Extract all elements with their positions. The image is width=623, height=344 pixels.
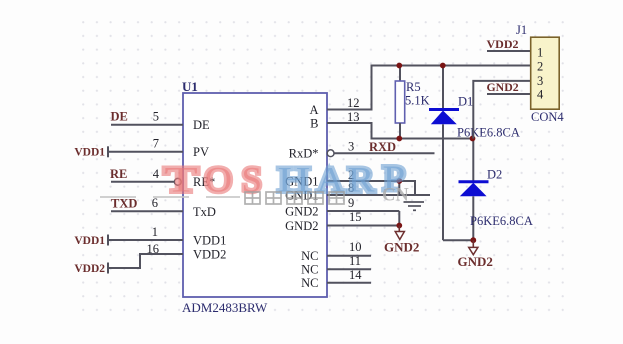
svg-text:VDD1: VDD1 [74,235,105,247]
junction pin 15 GND2 [396,223,402,229]
svg-text:RxD*: RxD* [289,146,319,160]
svg-text:3: 3 [537,74,543,88]
watermark TOSHARP logo [164,159,405,200]
wire pin 15 GND2 [327,210,399,226]
svg-text:11: 11 [349,254,361,268]
svg-text:ADM2483BRW: ADM2483BRW [182,300,268,315]
power port VDD1 (pin 1) [74,235,108,248]
wire pin 7 PV [108,137,183,152]
svg-text:RXD: RXD [369,140,396,154]
svg-text:D1: D1 [458,95,473,109]
svg-text:A: A [316,161,344,201]
wire pin 3 RXD [334,140,434,154]
diode D1 P6KE6.8CA (TVS) [429,66,520,241]
wire pin 6 TxD [111,196,183,211]
svg-text:NC: NC [301,249,318,263]
wire pin 2 GND1 [327,168,415,195]
junction pins 2-8 [396,178,402,184]
wire pin 13 B to lower bus [327,110,473,139]
svg-text:R: R [347,161,375,200]
svg-text:1: 1 [537,46,543,60]
svg-text:5: 5 [153,110,159,124]
junction R5 top on bus rail [396,63,402,69]
wire pin 4 RE* [111,167,174,182]
svg-text:A: A [309,103,318,117]
wire pin 5 DE [111,110,183,125]
wire junction riser pins 2-8 [398,181,400,195]
IC U1 ADM2483BRW body [182,79,327,315]
svg-text:J1: J1 [516,23,527,37]
junction B bus / D2 / J1 pin 3 [470,136,476,142]
power ground symbol GND2 (right) [458,240,493,269]
power ground symbol GND2 (left) [384,226,419,255]
svg-text:NC: NC [301,263,318,277]
junction D1-D2 ground node [470,237,476,243]
svg-text:4: 4 [537,88,544,102]
inverting bubble pin 3 RxD* [327,150,334,157]
svg-text:DE: DE [193,118,210,132]
resistor R5 5.1K [395,66,429,139]
svg-text:GND2: GND2 [487,80,519,94]
wire pin 10 NC [327,240,371,256]
watermark strikethrough and chinese caption [100,186,409,206]
svg-text:D2: D2 [487,168,502,182]
svg-text:3: 3 [348,140,354,154]
wire J1 pin 4 GND2 net [487,93,531,95]
svg-text:GND2: GND2 [384,240,419,255]
svg-text:T: T [164,160,197,200]
svg-text:VDD1: VDD1 [193,234,226,248]
power port VDD2 (pin 16) [74,263,108,276]
svg-text:4: 4 [153,167,160,181]
svg-text:PV: PV [193,145,209,159]
power port VDD1 (pin 7) [74,146,108,158]
svg-text:7: 7 [153,137,159,151]
svg-text:14: 14 [349,268,362,282]
svg-text:GND2: GND2 [285,205,318,219]
svg-text:CN: CN [382,186,409,206]
svg-text:VDD2: VDD2 [193,248,226,262]
svg-text:VDD1: VDD1 [74,147,105,159]
wire J1 pin 1 VDD2 net [487,50,531,52]
svg-text:5.1K: 5.1K [405,94,430,108]
inverting bubble pin 4 [174,178,181,185]
junction D1 top on bus rail [440,63,446,69]
svg-text:2: 2 [537,60,543,74]
wire pin 8 GND1 [327,181,430,195]
svg-text:1: 1 [152,225,158,239]
svg-text:B: B [310,117,318,131]
svg-text:VDD2: VDD2 [74,263,105,275]
diode D2 P6KE6.8CA (TVS) [459,139,533,241]
svg-text:GND2: GND2 [458,254,493,269]
wire pin 1 VDD1 [108,225,183,240]
wire J1 pin 3 to B bus [473,81,531,139]
svg-text:TXD: TXD [111,197,137,211]
svg-text:13: 13 [347,110,360,124]
wire pin 12 A to bus rail [327,66,531,111]
svg-text:TxD: TxD [193,205,216,219]
svg-text:RE: RE [110,167,127,181]
svg-text:NC: NC [301,276,318,290]
svg-text:6: 6 [152,196,158,210]
junction R5 bottom on B bus [396,136,402,142]
svg-text:R5: R5 [406,80,421,94]
wire pin 9 GND2 [327,196,399,226]
svg-text:O: O [205,160,233,200]
svg-text:VDD2: VDD2 [487,37,519,51]
svg-text:GND2: GND2 [285,219,318,233]
svg-text:DE: DE [111,110,128,124]
svg-text:P6KE6.8CA: P6KE6.8CA [457,126,520,140]
svg-text:12: 12 [347,96,360,110]
connector J1 CON4 [516,23,564,124]
svg-text:P6KE6.8CA: P6KE6.8CA [470,214,533,228]
svg-text:CON4: CON4 [531,110,564,124]
wire pin 11 NC [327,254,371,269]
wire pin 16 VDD2 (stepped) [108,242,183,268]
wire pin 14 NC [327,268,371,283]
svg-text:16: 16 [147,242,160,256]
svg-text:15: 15 [349,210,362,224]
svg-text:U1: U1 [182,79,198,94]
svg-text:10: 10 [349,240,362,254]
earth ground GND1 [404,202,425,210]
